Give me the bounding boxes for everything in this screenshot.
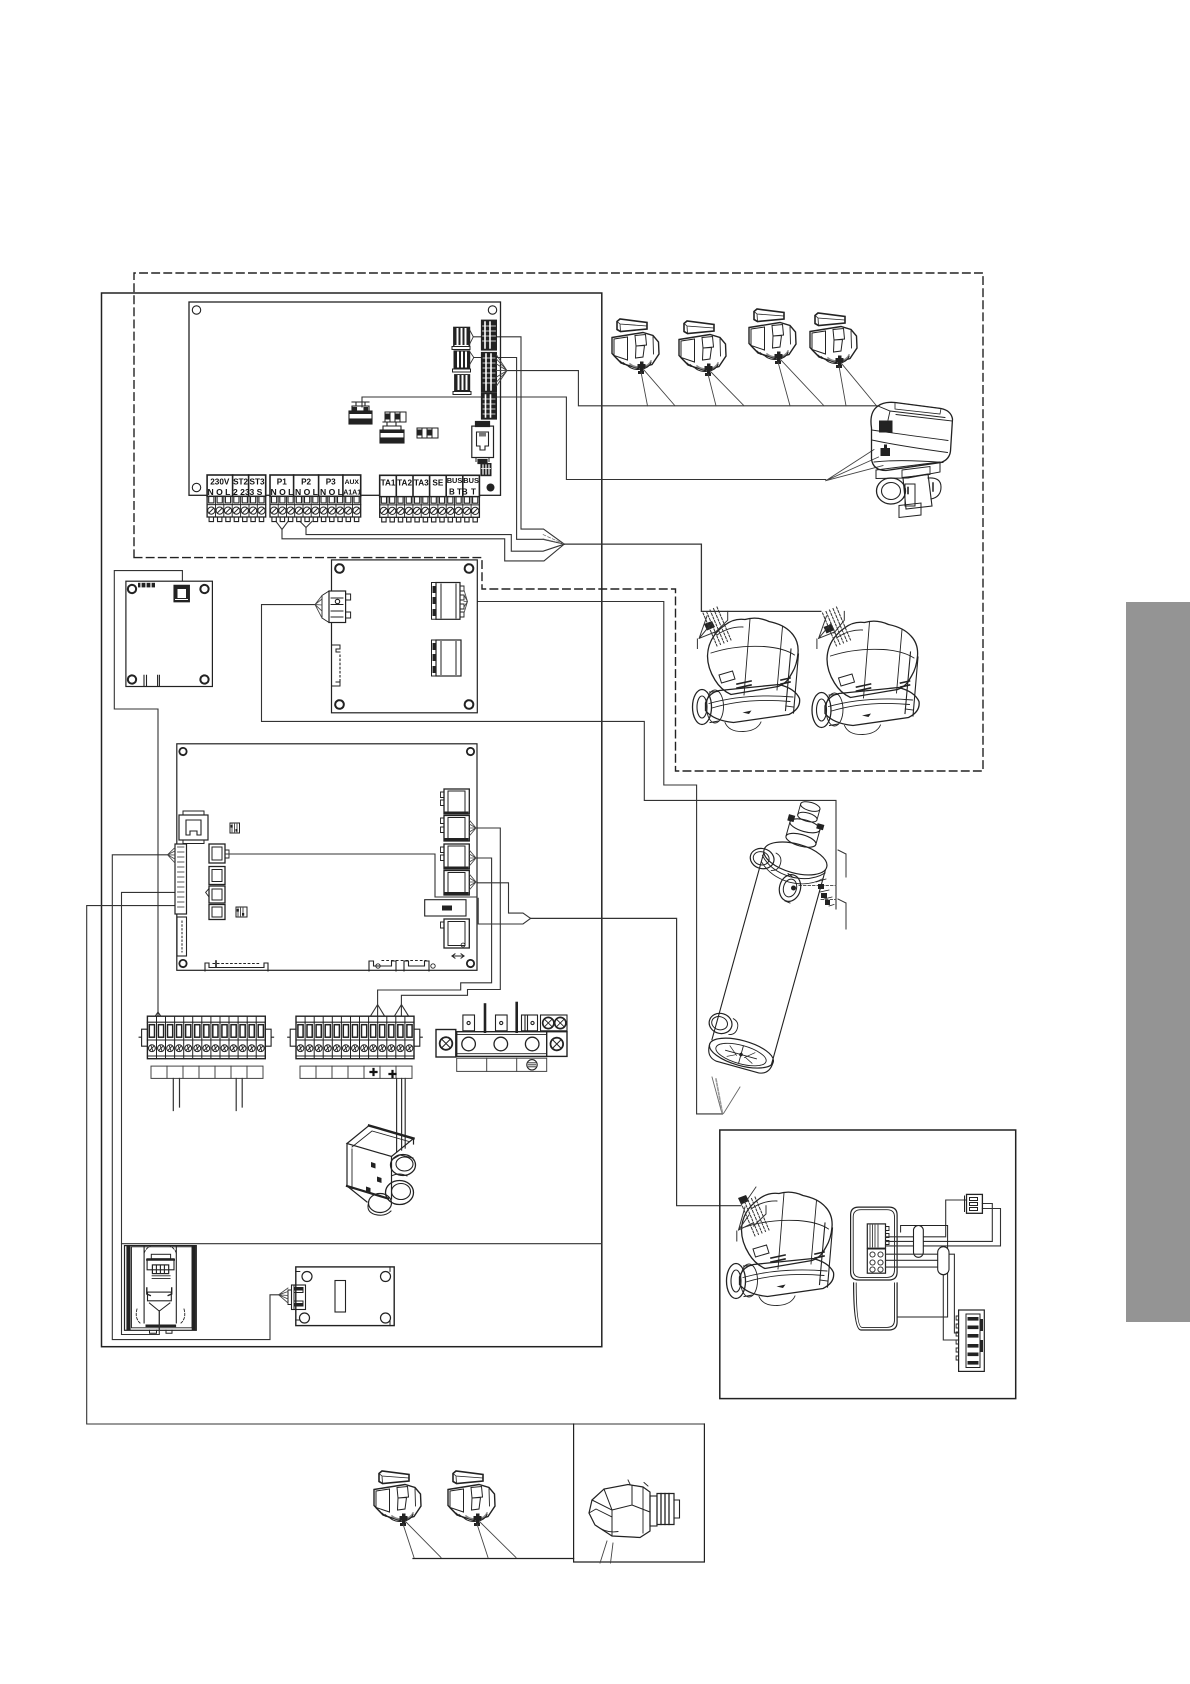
exchanger dashed leaders — [799, 886, 836, 900]
edge connector X1 on U1 — [481, 320, 507, 419]
module lower wiring — [886, 1254, 938, 1267]
wire W12 tail into flue device — [122, 1244, 160, 1335]
wire W3 terminal P2 to pump arrow — [300, 521, 564, 551]
U4 lower edge connector J7 — [177, 917, 187, 956]
screw terminals group A on U1 — [207, 496, 266, 521]
gray side tab — [1126, 602, 1190, 1322]
terminal strip X11 (mains) — [288, 1016, 423, 1078]
pump controller module M1 — [851, 1194, 1001, 1371]
svg-text:BUS: BUS — [463, 476, 479, 485]
wire W7 relay to zone valve — [362, 397, 826, 480]
U4 connector Q2 — [209, 867, 225, 885]
flue safety device B1 — [125, 1246, 197, 1334]
main enclosure box — [102, 293, 602, 1347]
U4 internal wire to boiler pump — [225, 854, 477, 897]
U4 left edge connector J6 — [175, 844, 187, 914]
dip header J4 on U1 — [417, 428, 438, 438]
pump P2 — [812, 621, 919, 734]
sensor S4 — [810, 313, 857, 368]
U4 relay block B — [441, 844, 477, 895]
U3 bottom slots — [144, 675, 159, 686]
wire W1 connector C1 to pump arrow — [473, 337, 564, 544]
svg-text:N O L: N O L — [271, 487, 294, 497]
U2 left connector J1 — [329, 591, 346, 623]
terminal strip group A labels 230V ST2 ST3 on U1 — [207, 475, 266, 497]
sensor S1 leaders — [641, 370, 675, 406]
svg-text:T: T — [471, 488, 476, 497]
controller board U4 — [168, 744, 478, 971]
wire W13 board4 to external sensors — [87, 906, 705, 1424]
U4 bottom connector strip B — [369, 961, 396, 971]
svg-text:P2: P2 — [301, 477, 311, 486]
relay K2 on U1 — [380, 422, 404, 443]
module lower terminal — [867, 1249, 885, 1273]
accessory pump P3 — [727, 1192, 834, 1305]
screw terminals group B on U1 — [270, 496, 361, 521]
external sensor S5 — [374, 1471, 421, 1526]
svg-text:SE: SE — [432, 479, 443, 488]
pump connector 3-pin — [967, 1194, 983, 1213]
U4 bidirectional arrow mark — [452, 954, 464, 958]
module upper terminal — [867, 1224, 885, 1248]
X10 stub wires — [173, 1079, 242, 1111]
svg-text:TA3: TA3 — [414, 479, 429, 488]
U2 relay output K2 — [432, 640, 462, 676]
wire W10 board2 to exchanger drain — [468, 602, 723, 1114]
svg-text:N O L: N O L — [208, 487, 231, 497]
svg-text:3 S: 3 S — [250, 487, 263, 497]
U4 dip J5 — [230, 823, 240, 833]
svg-text:B TB: B TB — [449, 488, 468, 497]
sensor S2 — [679, 321, 726, 376]
sensor S3 leaders — [778, 360, 824, 406]
svg-text:P3: P3 — [326, 477, 336, 486]
flow sensor S7 — [589, 1480, 680, 1538]
zone valve leader fan — [826, 450, 883, 481]
U4 connector Q1 — [209, 844, 225, 863]
U3 transformer T1 — [174, 585, 189, 602]
wire W2 connector C2 to pump arrow — [474, 358, 565, 545]
connector C1 on U1 — [452, 327, 473, 349]
ignition board U3 — [126, 581, 212, 686]
U4 component small — [236, 907, 247, 917]
exchanger funnel leaders — [712, 1077, 740, 1114]
svg-text:2 23: 2 23 — [233, 487, 250, 497]
pump P1 — [693, 618, 800, 731]
X11 wires to diverter valve — [397, 1079, 406, 1153]
wire W14 board3 to terminal strip 1 — [114, 571, 182, 1021]
svg-text:BUS: BUS — [447, 476, 463, 485]
terminal strip group C labels TA1 TA2 TA3 SE BUS BUS on U1 — [380, 475, 480, 496]
connector C3 on U1 — [453, 375, 471, 395]
terminal strip group B labels P1 P2 P3 AUX on U1 — [270, 475, 361, 497]
main control board U1 — [189, 302, 501, 495]
U4 relay block C — [444, 919, 469, 948]
relay K1 on U1 — [349, 402, 372, 424]
U2 left edge card notch — [332, 645, 341, 686]
wire W5 to circulating pumps — [564, 544, 821, 611]
svg-text:N O L: N O L — [320, 487, 343, 497]
X11 plus marks — [371, 1069, 396, 1077]
U3 header — [138, 583, 155, 588]
DIP switch block SW1 — [959, 1310, 985, 1371]
module wiring to connector — [886, 1200, 1001, 1246]
RJ11 service jack on U1 — [472, 422, 494, 464]
svg-text:TA2: TA2 — [397, 479, 412, 488]
sensor S4 leaders — [839, 364, 877, 406]
sensor S6 leaders — [477, 1522, 516, 1558]
exchanger leader brackets — [838, 850, 846, 929]
heat exchanger E1 — [695, 791, 843, 1076]
screw terminals group C on U1 — [380, 497, 480, 522]
wire WB relay B to terminal strip 2 — [371, 858, 492, 1016]
bottom sensor boxes — [574, 1424, 705, 1562]
U4 fuse holder F1 — [425, 900, 466, 916]
U4 bottom connector strip A — [205, 963, 268, 971]
wall plate connector — [292, 1285, 306, 1310]
wire W6 board connector to sensors common line — [507, 371, 877, 406]
U4 connector Q4 — [209, 905, 225, 920]
expansion board U2 — [315, 560, 477, 713]
wire W11 board4 to wall plate — [112, 855, 278, 1340]
connector C2 on U1 — [453, 351, 474, 372]
U4 relay block A — [441, 789, 477, 841]
zone valve V1 — [871, 402, 953, 517]
sensor S5 leaders — [403, 1522, 441, 1558]
terminal strip X10 (low voltage) — [139, 1016, 274, 1078]
svg-text:230V: 230V — [210, 477, 230, 486]
bus connector on U1 — [481, 464, 491, 476]
wire W9 board2 to exchanger sensor well — [262, 605, 837, 909]
wire WA relay A to terminal strip 2 — [395, 828, 501, 1016]
svg-text:ST3: ST3 — [249, 477, 264, 486]
exchanger sensor well — [776, 872, 834, 906]
sensor S2 leaders — [708, 372, 744, 406]
power terminal block X12 — [436, 1003, 567, 1071]
wall plate W1 — [279, 1267, 395, 1326]
external sensor S6 — [448, 1471, 495, 1526]
sensor S1 — [612, 319, 659, 374]
U4 connector Q3 — [209, 886, 225, 903]
dashed option-kit boundary — [134, 273, 983, 771]
bottom right accessory box — [720, 1130, 1016, 1399]
svg-text:AUX: AUX — [345, 479, 360, 486]
pump P2 cable — [823, 607, 851, 646]
pump P3 cable — [741, 1197, 769, 1236]
wire W12 board4 to flue sensor line — [122, 892, 602, 1243]
flow sensor leaders — [600, 1541, 613, 1563]
pump P1 cable — [703, 607, 731, 646]
svg-text:A1A1: A1A1 — [343, 490, 361, 497]
svg-text:N O L: N O L — [295, 487, 318, 497]
wire W4 terminal P1 to pump arrow — [276, 521, 564, 561]
U4 RJ45 jack — [179, 815, 208, 840]
svg-text:TA1: TA1 — [381, 479, 396, 488]
wire W8 relay fan to boiler pump line — [476, 883, 531, 924]
dip header J3 on U1 — [385, 412, 406, 422]
pump arrow inner leaders — [543, 535, 564, 545]
diverter valve V2 — [347, 1126, 416, 1216]
cable grommet capsule — [914, 1226, 924, 1258]
svg-text:ST2: ST2 — [233, 477, 248, 486]
U2 relay output K1 — [432, 583, 468, 620]
svg-text:P1: P1 — [277, 477, 287, 486]
sensor S3 — [749, 309, 796, 364]
